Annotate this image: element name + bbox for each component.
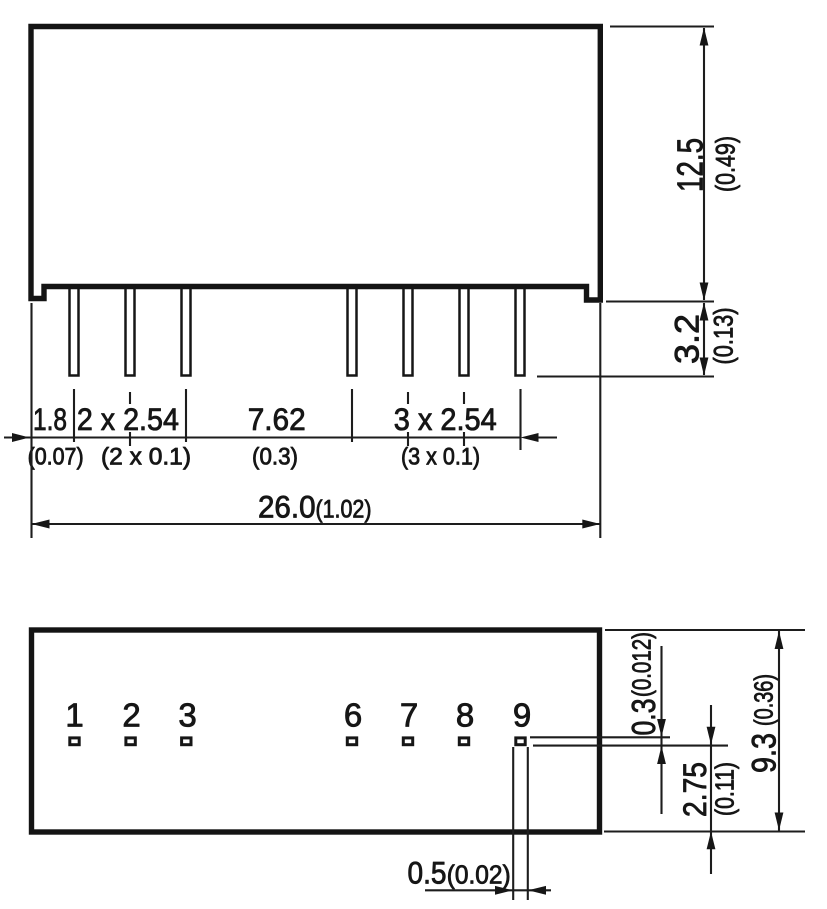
tick pin3 [185, 389, 187, 442]
svg-text:0.3: 0.3 [625, 699, 662, 736]
pin 3 (side view) [182, 286, 191, 376]
dimension 2.75 lower arrow [707, 832, 716, 850]
pitch dimension line [4, 436, 521, 438]
svg-text:(0.012): (0.012) [627, 632, 657, 697]
svg-text:(0.02): (0.02) [447, 860, 511, 890]
svg-text:(0.13): (0.13) [709, 308, 739, 365]
tick pin1 [73, 389, 75, 442]
svg-text:1: 1 [65, 697, 83, 734]
svg-text:9.3: 9.3 [746, 733, 784, 773]
svg-text:2: 2 [122, 697, 140, 734]
pin 6 (side view) [348, 286, 357, 376]
svg-text:6: 6 [344, 697, 362, 734]
pad 1 [70, 738, 79, 745]
dimension 0.3 upper arrow [660, 646, 662, 814]
dimension 0.5 right arrow [528, 886, 546, 895]
centerline pin8 [463, 392, 465, 404]
dimension 2.75 upper arrow [710, 705, 712, 874]
svg-text:2.75: 2.75 [677, 762, 713, 817]
dimension line 3.2 [703, 303, 705, 375]
svg-text:12.5: 12.5 [670, 138, 711, 192]
tick pin6 [351, 389, 353, 442]
svg-text:7: 7 [400, 697, 418, 734]
svg-text:3.2: 3.2 [669, 314, 707, 364]
pin 7 (side view) [404, 286, 413, 376]
dimension line 12.5 [703, 28, 705, 300]
centerline pin7 [407, 392, 409, 404]
dimension line 26.0 [32, 523, 601, 525]
svg-text:(0.49): (0.49) [711, 136, 741, 192]
dimension line 9.3 [778, 631, 780, 831]
centerline pin2 [129, 392, 131, 404]
pad9 extension line top horizontal [530, 736, 670, 738]
extension line top right (9.3) [605, 629, 805, 631]
pad9 extension line bottom horizontal [533, 745, 728, 747]
pin 1 (side view) [70, 286, 79, 376]
svg-text:(0.3): (0.3) [252, 444, 298, 471]
pad 2 [126, 738, 135, 745]
svg-text:0.5: 0.5 [408, 855, 447, 891]
svg-text:(0.07): (0.07) [28, 444, 84, 471]
svg-text:(2 x 0.1): (2 x 0.1) [101, 444, 191, 471]
dimension 0.3 lower arrow [657, 746, 666, 764]
svg-text:7.62: 7.62 [248, 401, 306, 437]
pad 9 [516, 738, 525, 745]
package body outline (side view) [31, 27, 600, 301]
pin 9 (side view) [516, 286, 525, 376]
svg-text:3 x 2.54: 3 x 2.54 [394, 401, 497, 437]
svg-text:26.0: 26.0 [258, 489, 316, 525]
svg-text:9: 9 [513, 697, 531, 734]
pin 2 (side view) [126, 286, 135, 376]
pad9 extension line left [512, 747, 514, 900]
extension line right (26.0) [599, 303, 601, 538]
svg-text:3: 3 [178, 697, 196, 734]
pad 3 [182, 738, 191, 745]
pin 8 (side view) [460, 286, 469, 376]
pad 8 [459, 738, 468, 745]
extension line pin bottom (3.2 lower) [537, 375, 714, 377]
svg-text:(1.02): (1.02) [316, 496, 372, 524]
extension line top right (12.5 upper) [610, 25, 714, 27]
svg-text:8: 8 [456, 697, 474, 734]
extension line flange bottom (12.5/3.2) [606, 300, 714, 302]
extension line bottom right (9.3) [604, 830, 805, 832]
svg-text:(0.36): (0.36) [749, 674, 779, 726]
pad 6 [347, 738, 356, 745]
svg-text:(0.11): (0.11) [710, 762, 740, 816]
tick pin9 [519, 389, 521, 450]
package body outline (bottom view) [32, 630, 600, 832]
extension line left (26.0) [30, 303, 32, 538]
svg-text:2 x 2.54: 2 x 2.54 [77, 401, 179, 437]
svg-text:(3 x 0.1): (3 x 0.1) [401, 444, 480, 471]
pad 7 [403, 738, 412, 745]
svg-text:1.8: 1.8 [33, 401, 67, 437]
pad9 extension line right [527, 747, 529, 900]
dimension 0.5 left arrow [425, 889, 551, 891]
